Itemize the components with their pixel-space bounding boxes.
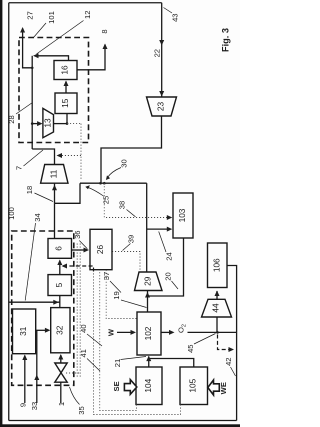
- leader 30 curved: [107, 168, 121, 179]
- svg-text:104: 104: [143, 378, 153, 392]
- svg-text:38: 38: [118, 201, 127, 209]
- wire 16 to stream 8: [77, 45, 105, 70]
- arrowhead into 103: [167, 227, 173, 232]
- wire from box 6 up: [54, 203, 56, 238]
- box 16: [54, 61, 77, 80]
- box 103: [173, 193, 193, 238]
- leader 28: [16, 103, 33, 115]
- svg-text:22: 22: [153, 49, 162, 57]
- svg-text:18: 18: [25, 186, 34, 194]
- arrowhead 15 to 16: [64, 81, 69, 87]
- svg-text:12: 12: [83, 11, 92, 19]
- wire O2 out of 102: [161, 331, 173, 333]
- leader 41: [87, 359, 100, 372]
- leader 101: [34, 23, 47, 38]
- leader 43: [164, 8, 173, 14]
- dotted sense line 26 to 102: [106, 270, 136, 319]
- wire into turbine 11: [54, 184, 56, 204]
- arrowhead into 29: [145, 292, 150, 298]
- wire 31 to 32: [36, 329, 49, 331]
- svg-text:Fig. 3: Fig. 3: [220, 28, 230, 52]
- wire 44 to 106: [216, 291, 218, 299]
- leader 20: [172, 281, 179, 289]
- svg-text:32: 32: [54, 325, 64, 335]
- stream 1: [60, 382, 62, 403]
- leader 21: [121, 357, 147, 360]
- svg-text:33: 33: [30, 402, 39, 410]
- leader 35 curved: [70, 387, 80, 405]
- compressor 44: [202, 299, 232, 317]
- box 6: [48, 239, 72, 259]
- svg-text:41: 41: [79, 349, 88, 357]
- wire riser 28: [31, 56, 33, 149]
- svg-text:35: 35: [77, 406, 86, 414]
- arrowhead 27: [20, 27, 25, 33]
- box 31: [13, 309, 36, 354]
- dotted valve control at waist: [66, 372, 80, 374]
- arrowhead 12 feed: [33, 53, 39, 58]
- svg-text:23: 23: [156, 102, 166, 112]
- wire 23 outlet to node 30: [101, 116, 162, 183]
- box 104: [136, 367, 162, 405]
- svg-text:102: 102: [143, 326, 153, 340]
- svg-text:6: 6: [54, 246, 64, 251]
- arrowhead into 11: [52, 185, 57, 191]
- arrowhead stream 8: [103, 44, 108, 50]
- arrowhead into 6: [57, 260, 62, 266]
- box 15: [55, 93, 77, 114]
- wire 15 to 16: [65, 82, 67, 94]
- arrowhead stream 22: [159, 40, 164, 46]
- svg-text:39: 39: [127, 235, 136, 243]
- dashed box 101: [19, 38, 89, 143]
- dotted into 11 feed: [59, 155, 82, 157]
- wire outer loop top: [9, 2, 162, 4]
- box 26: [90, 229, 112, 269]
- svg-text:101: 101: [47, 11, 56, 24]
- svg-text:105: 105: [188, 378, 198, 392]
- dotted pair inner left: [76, 244, 78, 378]
- box 102: [137, 312, 161, 355]
- svg-text:37: 37: [102, 272, 111, 280]
- leader 37: [110, 281, 121, 293]
- wire outer loop left: [8, 3, 10, 421]
- wire 103 outlet loop: [148, 238, 184, 296]
- svg-text:19: 19: [112, 291, 121, 299]
- arrowhead dashed left: [62, 264, 68, 269]
- wire 6 to 26: [72, 249, 88, 251]
- wire W into 102: [117, 331, 134, 333]
- node dot A: [99, 182, 102, 185]
- svg-text:WE: WE: [219, 382, 228, 394]
- dashed control 45: [218, 335, 232, 350]
- svg-text:103: 103: [177, 208, 187, 222]
- block arrow WE: [208, 380, 220, 395]
- node dot B: [103, 182, 106, 185]
- wire main header: [80, 182, 147, 184]
- wire 16 top feed: [35, 56, 69, 61]
- svg-text:9: 9: [19, 403, 28, 407]
- wire header to turbine 11: [55, 183, 81, 203]
- svg-text:26: 26: [95, 245, 105, 255]
- box 5: [48, 275, 72, 296]
- arrowhead 33: [34, 375, 39, 381]
- leader 24: [159, 232, 166, 253]
- leader 42: [231, 367, 236, 376]
- svg-text:O2: O2: [177, 324, 188, 333]
- dashed control into 5-6 stream: [63, 266, 94, 272]
- arrowhead into 32: [45, 328, 51, 333]
- dotted branch right of 13: [67, 124, 81, 181]
- scan edge band bottom: [0, 424, 240, 427]
- arrowhead W: [131, 330, 137, 335]
- box 32: [51, 308, 70, 353]
- wire stream 22 into turbine 23: [161, 3, 163, 97]
- arrowhead into 23: [159, 91, 164, 97]
- svg-text:44: 44: [211, 303, 221, 313]
- svg-text:SE: SE: [112, 381, 121, 391]
- dotted sense line 104 to 26: [100, 270, 137, 411]
- svg-text:21: 21: [113, 359, 122, 367]
- svg-text:8: 8: [100, 29, 109, 33]
- svg-text:28: 28: [7, 115, 16, 123]
- wire 5 to 6: [59, 261, 61, 275]
- box 105: [180, 367, 208, 405]
- svg-text:27: 27: [26, 11, 35, 19]
- arrowhead 9 into 31: [22, 355, 27, 361]
- arrowhead 45: [229, 347, 235, 352]
- svg-text:42: 42: [224, 357, 233, 365]
- wire 32 to 5: [59, 296, 61, 308]
- wire 102 to 29: [147, 291, 149, 312]
- node dot before 13: [38, 122, 40, 124]
- svg-text:7: 7: [15, 166, 24, 170]
- wire feed 34: [9, 301, 60, 303]
- svg-text:16: 16: [60, 65, 70, 75]
- svg-text:100: 100: [7, 207, 16, 220]
- node dot 27 branch: [31, 67, 34, 70]
- leader 45: [194, 334, 216, 345]
- svg-text:40: 40: [79, 324, 88, 332]
- wire outer loop bottom: [9, 420, 237, 422]
- leader 19: [121, 300, 147, 308]
- wire 104/105 into 102: [149, 357, 194, 368]
- arrowhead into 32 bottom: [58, 354, 63, 360]
- leader 38: [127, 210, 136, 217]
- svg-text:5: 5: [54, 282, 64, 287]
- wire outer loop right (stream 42): [227, 266, 237, 421]
- wire into compressor 13: [32, 123, 40, 125]
- turbine 23: [147, 97, 177, 116]
- leader 7: [24, 150, 44, 166]
- svg-text:W: W: [107, 328, 116, 336]
- node dot 13 branch: [31, 122, 34, 125]
- leader 25 curved: [87, 187, 104, 196]
- block arrow SE: [124, 380, 136, 395]
- svg-text:15: 15: [60, 98, 70, 108]
- svg-text:34: 34: [33, 213, 42, 221]
- svg-text:45: 45: [186, 344, 195, 352]
- leader 34: [25, 223, 35, 301]
- dotted sense header to 103: [104, 183, 169, 217]
- leader 40: [87, 334, 102, 346]
- stream 33: [36, 330, 38, 403]
- dotted control 26 to 29: [112, 252, 140, 271]
- box 106: [208, 243, 228, 288]
- wire valve to 32: [60, 355, 62, 363]
- node dot 13 outlet: [66, 122, 69, 125]
- dashed box 100: [12, 231, 74, 385]
- wire 11 feed from riser: [32, 149, 54, 165]
- wire main down to compressor 29: [146, 183, 148, 272]
- wire up into 15: [66, 114, 68, 124]
- arrowhead into 13: [37, 121, 43, 126]
- leader 12: [37, 21, 84, 55]
- compressor 13: [43, 108, 54, 137]
- svg-text:20: 20: [164, 272, 173, 280]
- arrowhead dotted into 103: [167, 215, 173, 220]
- leader 18: [35, 193, 54, 202]
- valve 35: [55, 363, 67, 382]
- wire O2 line to right edge: [188, 331, 237, 333]
- svg-text:1: 1: [57, 402, 66, 406]
- svg-text:25: 25: [102, 196, 111, 204]
- wire branch 27: [23, 29, 33, 68]
- svg-text:43: 43: [171, 13, 180, 21]
- svg-text:31: 31: [18, 326, 28, 336]
- arrowhead dotted left: [57, 153, 63, 158]
- node dot 44 junction: [216, 331, 219, 334]
- turbine 11: [41, 165, 68, 184]
- arrowhead O2: [169, 330, 175, 335]
- wire 13 outlet: [54, 123, 68, 125]
- arrowhead into 26: [84, 248, 90, 253]
- arrowhead into 102: [146, 356, 151, 362]
- scan edge band left: [0, 0, 2, 427]
- wire feed to box 103: [147, 228, 171, 230]
- arrowhead feed 34: [53, 300, 59, 305]
- leader 39: [123, 244, 131, 251]
- svg-text:106: 106: [211, 258, 221, 272]
- svg-text:29: 29: [142, 276, 152, 286]
- svg-text:11: 11: [48, 169, 58, 178]
- wire 44 inlet: [216, 317, 218, 332]
- compressor 29: [135, 272, 163, 291]
- svg-text:24: 24: [164, 252, 173, 260]
- dotted sense line 105 to 26: [94, 270, 181, 415]
- svg-text:30: 30: [120, 159, 129, 167]
- svg-text:13: 13: [42, 118, 52, 128]
- arrowhead into 106: [215, 291, 220, 297]
- stream 9: [24, 356, 26, 404]
- leader 36: [79, 241, 87, 249]
